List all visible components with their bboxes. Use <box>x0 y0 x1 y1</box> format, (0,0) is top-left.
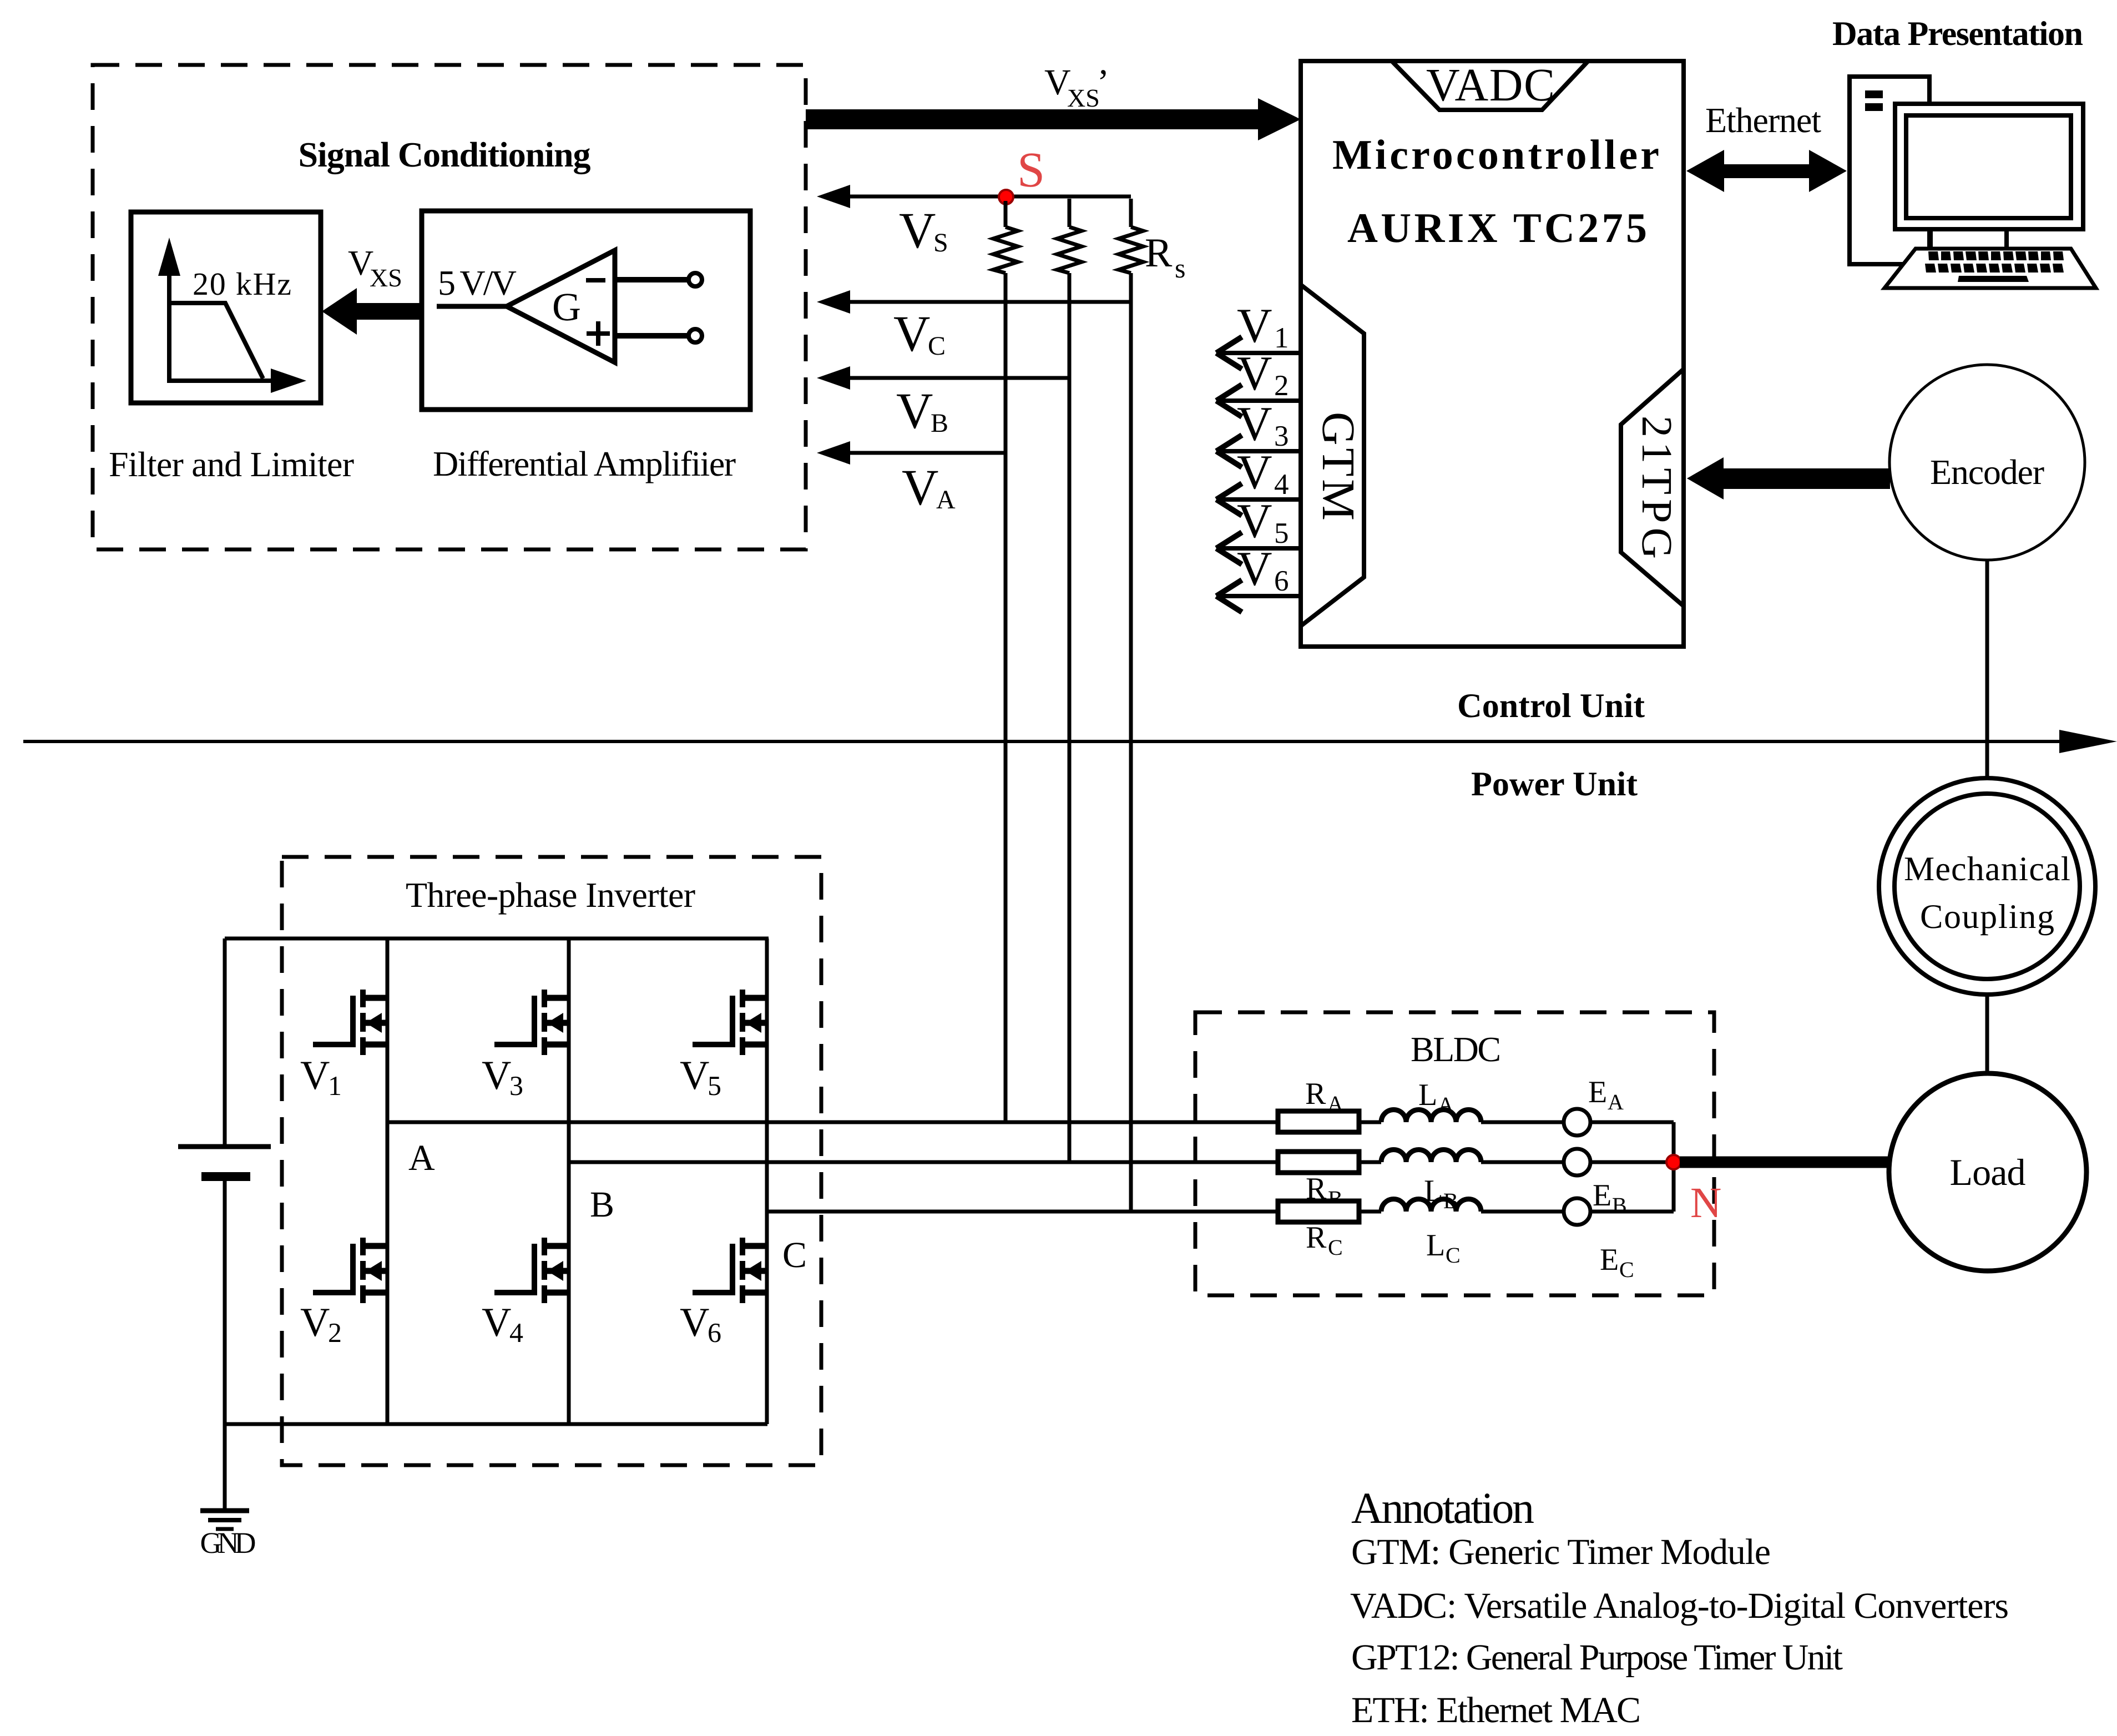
svg-text:20 kHz: 20 kHz <box>193 266 291 302</box>
svg-text:V: V <box>482 1053 511 1098</box>
svg-text:A: A <box>1438 1092 1454 1117</box>
VADC port trapezoid <box>1390 61 1590 110</box>
thick shaft wire N to Load <box>1680 1157 1890 1168</box>
annotation line ETH <box>1351 1690 1641 1730</box>
label LC <box>1426 1228 1461 1268</box>
svg-text:Load: Load <box>1950 1151 2026 1193</box>
svg-text:Power Unit: Power Unit <box>1471 765 1638 803</box>
VB arrow into box <box>817 366 850 390</box>
battery long plate <box>178 1144 271 1149</box>
svg-text:L: L <box>1426 1228 1445 1263</box>
svg-text:A: A <box>1327 1091 1343 1116</box>
label V6 <box>680 1300 721 1348</box>
svg-text:N: N <box>1690 1178 1721 1227</box>
label AURIX TC275 <box>1347 205 1647 251</box>
op-amp minus sign <box>586 278 605 282</box>
battery short plate <box>201 1172 250 1181</box>
mechanical coupling double circle <box>1879 778 2095 995</box>
svg-text:1: 1 <box>1274 322 1289 354</box>
GTM pin V2 arrow wire <box>1216 347 1301 417</box>
filter and limiter block <box>131 212 321 403</box>
transistor Q1 (V1) <box>313 990 387 1055</box>
GTM pin V4 arrow wire <box>1216 446 1301 516</box>
back-EMF source EA <box>1564 1109 1590 1136</box>
svg-text:V: V <box>1237 299 1272 353</box>
svg-text:S: S <box>933 228 948 258</box>
label Power Unit <box>1471 765 1638 803</box>
label Control Unit <box>1457 687 1645 725</box>
label RC <box>1306 1220 1343 1260</box>
GTM pin V3 arrow wire <box>1216 397 1301 467</box>
resistor RB <box>1278 1152 1359 1173</box>
label VC <box>893 305 946 362</box>
VXS' bus thick arrow <box>806 98 1301 140</box>
node B label <box>590 1184 614 1225</box>
load circle <box>1889 1073 2086 1271</box>
computer monitor <box>1895 104 2083 229</box>
label 5 V/V <box>438 263 517 302</box>
op-amp inverting input wire <box>615 277 688 282</box>
VS arrow into box <box>817 185 850 208</box>
svg-text:V: V <box>1237 494 1272 548</box>
inductor LC <box>1359 1199 1564 1212</box>
svg-text:S: S <box>1017 143 1045 198</box>
unit divider line with arrow <box>23 730 2117 753</box>
wire EA to star point <box>1590 1121 1674 1124</box>
label EA <box>1588 1075 1624 1114</box>
svg-text:B: B <box>1612 1193 1627 1218</box>
svg-text:A: A <box>936 485 956 514</box>
svg-text:V: V <box>899 202 936 259</box>
svg-text:C: C <box>1446 1243 1461 1268</box>
VC arrow into box <box>817 290 850 314</box>
svg-text:21TPG: 21TPG <box>1633 416 1681 559</box>
filter graph horizontal axis <box>168 369 306 393</box>
label VXS' <box>1044 62 1109 112</box>
svg-text:B: B <box>931 408 948 438</box>
wire EC to star point <box>1590 1210 1674 1214</box>
back-EMF source EB <box>1564 1149 1590 1175</box>
label Ethernet <box>1705 100 1821 140</box>
svg-text:Control Unit: Control Unit <box>1457 687 1645 725</box>
op-amp plus sign <box>587 321 610 346</box>
svg-text:VADC: VADC <box>1426 59 1555 111</box>
op-amp non-inverting input wire <box>615 333 688 339</box>
svg-text:Coupling: Coupling <box>1920 898 2054 936</box>
svg-text:V: V <box>680 1053 709 1098</box>
label RA <box>1305 1077 1343 1116</box>
label V1 <box>300 1053 342 1101</box>
wire to ground <box>223 1424 227 1511</box>
sense wire to phase C <box>1129 273 1133 1212</box>
inductor LB <box>1359 1150 1564 1163</box>
annotation title <box>1351 1484 1534 1533</box>
svg-text:Data Presentation: Data Presentation <box>1832 15 2083 53</box>
svg-text:L: L <box>1418 1078 1437 1112</box>
transistor Q5 (V5) <box>693 990 767 1055</box>
phase B output wire <box>569 1160 1278 1164</box>
node A label <box>408 1138 435 1178</box>
svg-text:A: A <box>408 1138 435 1178</box>
inverter leg A wire <box>386 938 390 1424</box>
svg-text:GPT12: General Purpose Timer U: GPT12: General Purpose Timer Unit <box>1351 1637 1843 1678</box>
svg-text:5: 5 <box>1274 517 1289 549</box>
svg-text:V: V <box>902 459 938 516</box>
transistor Q3 (V3) <box>494 990 569 1055</box>
svg-text:V: V <box>1237 397 1272 451</box>
resistor RA <box>1278 1111 1359 1132</box>
transistor Q2 (V2) <box>313 1238 387 1303</box>
svg-text:GTM: Generic Timer Module: GTM: Generic Timer Module <box>1351 1532 1771 1572</box>
svg-text:Mechanical: Mechanical <box>1904 850 2070 888</box>
svg-text:B: B <box>590 1184 614 1225</box>
svg-text:V: V <box>300 1300 330 1345</box>
svg-text:ETH: Ethernet MAC: ETH: Ethernet MAC <box>1351 1690 1641 1730</box>
label Three-phase Inverter <box>406 875 695 915</box>
wire encoder to mechanical coupling <box>1985 560 1989 779</box>
svg-text:V: V <box>1237 446 1272 499</box>
three-phase inverter dashed box <box>282 857 821 1465</box>
svg-text:Differential Amplifiier: Differential Amplifiier <box>433 444 736 483</box>
label V5 <box>680 1053 721 1101</box>
svg-text:XS: XS <box>1067 84 1100 112</box>
svg-text:V: V <box>893 305 930 362</box>
inverter leg B wire <box>567 938 571 1424</box>
differential amplifier block <box>422 211 750 410</box>
svg-text:C: C <box>1619 1257 1634 1282</box>
svg-text:V: V <box>896 382 933 439</box>
svg-text:V: V <box>482 1300 511 1345</box>
label V4 <box>482 1300 523 1348</box>
op-amp G triangle <box>507 250 615 362</box>
svg-text:Signal Conditioning: Signal Conditioning <box>299 135 591 175</box>
label Data Presentation <box>1832 15 2083 53</box>
label VXS <box>348 243 402 292</box>
svg-text:Three-phase Inverter: Three-phase Inverter <box>406 875 695 915</box>
signal conditioning dashed box <box>93 65 806 549</box>
label LB <box>1424 1174 1458 1213</box>
resistor Rs phase B <box>1057 199 1082 273</box>
svg-text:Filter and Limiter: Filter and Limiter <box>109 445 354 484</box>
label Signal Conditioning <box>299 135 591 175</box>
transistor Q4 (V4) <box>494 1238 569 1303</box>
annotation line VADC <box>1350 1586 2009 1626</box>
svg-text:GTM: GTM <box>1312 412 1364 521</box>
svg-text:4: 4 <box>509 1317 523 1348</box>
node N dot <box>1666 1155 1681 1169</box>
label 20 kHz <box>193 266 291 302</box>
inverter leg C wire <box>765 938 769 1424</box>
label GPT12 <box>1633 416 1681 559</box>
svg-text:V: V <box>1237 347 1272 401</box>
node N label <box>1690 1178 1721 1227</box>
star point bus wire <box>1672 1122 1676 1212</box>
label VS <box>899 202 948 259</box>
wire EB to star point <box>1590 1160 1674 1164</box>
Ethernet double arrow <box>1686 150 1847 192</box>
resistor Rs phase A <box>993 201 1018 273</box>
svg-text:C: C <box>782 1235 807 1275</box>
label Rs <box>1145 230 1185 284</box>
svg-text:V: V <box>680 1300 709 1345</box>
BLDC dashed box <box>1195 1012 1714 1295</box>
svg-text:AURIX TC275: AURIX TC275 <box>1347 205 1647 251</box>
label VA <box>902 459 956 516</box>
label GTM <box>1312 412 1364 521</box>
label VADC <box>1426 59 1555 111</box>
filter graph vertical axis <box>158 238 180 383</box>
svg-text:V: V <box>300 1053 330 1098</box>
label Differential Amplifiier <box>433 444 736 483</box>
battery negative wire <box>223 1181 227 1424</box>
ground <box>200 1511 256 1560</box>
svg-text:s: s <box>1175 253 1185 284</box>
wire VS <box>848 195 1131 199</box>
resistor Rs phase C <box>1119 199 1143 273</box>
svg-text:VADC: Versatile Analog-to-Digi: VADC: Versatile Analog-to-Digital Conver… <box>1350 1586 2009 1626</box>
computer keyboard <box>1884 249 2096 288</box>
phase A output wire <box>387 1121 1278 1124</box>
battery positive wire <box>223 938 227 1147</box>
op-amp output wire <box>437 304 507 309</box>
svg-text:G: G <box>552 285 581 329</box>
wire mechanical coupling to load <box>1985 995 1989 1074</box>
transistor Q6 (V6) <box>693 1238 767 1303</box>
non-inverting input terminal <box>689 329 702 342</box>
svg-text:XS: XS <box>370 264 402 292</box>
svg-text:6: 6 <box>708 1317 721 1348</box>
label EC <box>1600 1243 1634 1282</box>
microcontroller U1 box <box>1301 61 1684 647</box>
DC bus bottom rail wire <box>225 1422 767 1426</box>
GTM port pentagon <box>1301 282 1364 628</box>
svg-text:Microcontroller: Microcontroller <box>1332 132 1659 178</box>
sense wire to phase B <box>1068 273 1072 1162</box>
svg-text:R: R <box>1306 1220 1327 1255</box>
wire VB <box>848 376 1069 380</box>
svg-text:Annotation: Annotation <box>1351 1484 1534 1533</box>
annotation line GPT12 <box>1351 1637 1843 1678</box>
svg-text:3: 3 <box>509 1070 523 1101</box>
svg-text:Ethernet: Ethernet <box>1705 100 1821 140</box>
svg-text:BLDC: BLDC <box>1411 1030 1501 1069</box>
svg-text:2: 2 <box>328 1317 342 1348</box>
svg-text:Encoder: Encoder <box>1930 452 2044 492</box>
GPT12 port pentagon <box>1621 367 1684 608</box>
encoder circle <box>1889 365 2085 560</box>
wire VA <box>848 451 1006 455</box>
label VB <box>896 382 948 439</box>
svg-text:C: C <box>928 331 946 361</box>
svg-text:3: 3 <box>1274 420 1289 452</box>
node C label <box>782 1235 807 1275</box>
computer tower <box>1850 77 1929 264</box>
resistor RC <box>1278 1201 1359 1222</box>
filter response curve <box>170 303 263 379</box>
label LA <box>1418 1078 1454 1117</box>
svg-text:E: E <box>1600 1243 1619 1277</box>
svg-text:C: C <box>1328 1235 1343 1260</box>
inductor LA <box>1359 1110 1564 1123</box>
svg-text:R: R <box>1305 1077 1326 1111</box>
GTM pin V1 arrow wire <box>1216 299 1301 369</box>
svg-text:4: 4 <box>1274 468 1289 501</box>
label RB <box>1306 1172 1343 1211</box>
svg-text:E: E <box>1593 1178 1611 1213</box>
label EB <box>1593 1178 1627 1218</box>
monitor stands <box>1931 229 2007 249</box>
inverting input terminal <box>689 273 702 286</box>
svg-text:’: ’ <box>1097 62 1109 103</box>
DC bus top rail wire <box>225 937 769 941</box>
label Microcontroller <box>1332 132 1659 178</box>
label V2 <box>300 1300 342 1348</box>
back-EMF source EC <box>1564 1198 1590 1225</box>
annotation line GTM <box>1351 1532 1771 1572</box>
svg-text:2: 2 <box>1274 370 1289 402</box>
svg-text:V: V <box>1237 542 1272 596</box>
sense wire to phase A <box>1004 273 1008 1122</box>
svg-text:E: E <box>1588 1075 1607 1109</box>
VA arrow into box <box>817 441 850 465</box>
GTM pin V6 arrow wire <box>1216 542 1301 612</box>
svg-text:A: A <box>1608 1089 1624 1114</box>
phase C output wire <box>767 1210 1278 1214</box>
GTM pin V5 arrow wire <box>1216 494 1301 564</box>
svg-text:5 V/V: 5 V/V <box>438 263 517 302</box>
label V3 <box>482 1053 523 1101</box>
wire VC <box>848 300 1131 304</box>
svg-text:GND: GND <box>200 1526 256 1560</box>
node S dot <box>999 190 1013 204</box>
encoder to GPT12 thick arrow <box>1687 457 1890 499</box>
node S label <box>1017 143 1045 198</box>
VXS thick arrow <box>322 288 423 335</box>
svg-text:R: R <box>1145 230 1173 276</box>
svg-text:1: 1 <box>328 1070 342 1101</box>
svg-text:6: 6 <box>1274 565 1289 597</box>
label Filter and Limiter <box>109 445 354 484</box>
label BLDC <box>1411 1030 1501 1069</box>
svg-text:5: 5 <box>708 1070 721 1101</box>
